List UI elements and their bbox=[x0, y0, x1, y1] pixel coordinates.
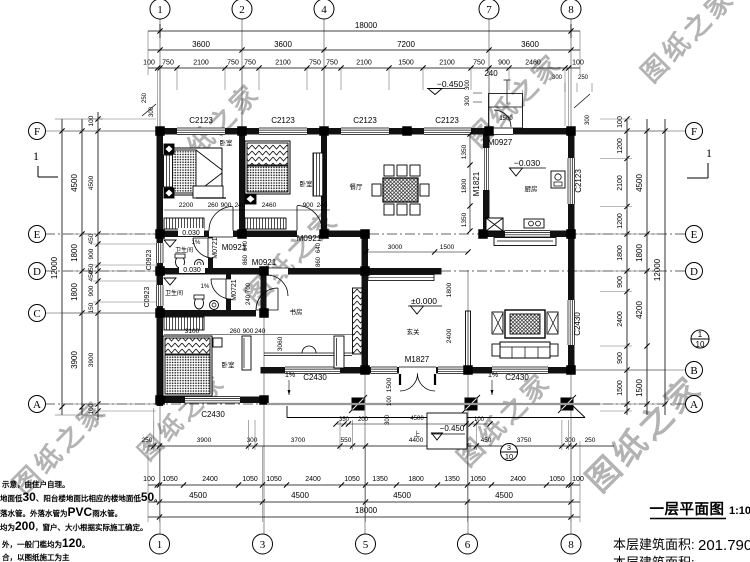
svg-text:卧室: 卧室 bbox=[222, 360, 236, 369]
svg-text:900: 900 bbox=[88, 285, 95, 296]
grid bubble F left bbox=[29, 123, 46, 140]
svg-text:3700: 3700 bbox=[291, 437, 306, 444]
svg-text:1350: 1350 bbox=[444, 476, 460, 483]
svg-text:900: 900 bbox=[617, 276, 624, 288]
door arc study bbox=[267, 275, 288, 296]
column bbox=[237, 229, 247, 239]
svg-text:3900: 3900 bbox=[70, 351, 79, 369]
svg-text:卫生间: 卫生间 bbox=[175, 246, 193, 254]
svg-text:860: 860 bbox=[243, 254, 249, 265]
bottom step block bbox=[427, 413, 467, 449]
svg-text:2100: 2100 bbox=[275, 60, 291, 67]
kitchen south window bbox=[505, 231, 550, 238]
svg-text:C2430: C2430 bbox=[505, 373, 529, 382]
svg-text:2460: 2460 bbox=[262, 202, 277, 209]
grid line 3 bbox=[263, 270, 265, 534]
exterior wall west bbox=[157, 128, 164, 406]
dim line left 12000 bbox=[61, 119, 63, 415]
svg-text:100: 100 bbox=[572, 60, 584, 67]
svg-text:M0721: M0721 bbox=[231, 279, 238, 301]
bottom extension stubs bbox=[153, 420, 155, 450]
porch column 2 bbox=[462, 395, 480, 413]
svg-text:书房: 书房 bbox=[290, 307, 303, 316]
svg-text:1050: 1050 bbox=[266, 476, 282, 483]
svg-text:1500: 1500 bbox=[635, 379, 644, 397]
entry steps north bbox=[489, 94, 523, 129]
column bbox=[566, 229, 576, 239]
kitchen back porch bbox=[494, 238, 556, 246]
window C2123 n1 bbox=[177, 128, 225, 135]
dim line right fine bbox=[626, 119, 628, 415]
door gap M0927 bbox=[492, 128, 513, 135]
svg-text:240: 240 bbox=[317, 202, 328, 209]
door gap M1827 bbox=[399, 367, 436, 374]
grid line 6 bbox=[467, 270, 469, 534]
svg-text:C2430: C2430 bbox=[201, 410, 225, 419]
kitchen wall south bbox=[483, 231, 575, 238]
dim chain fine bottom A bbox=[148, 445, 614, 447]
svg-text:3750: 3750 bbox=[517, 437, 532, 444]
svg-text:6: 6 bbox=[465, 539, 471, 551]
tv unit living bbox=[505, 310, 545, 338]
door gap bedroom2 bbox=[297, 231, 322, 238]
column bbox=[319, 229, 329, 239]
svg-text:B: B bbox=[690, 365, 697, 377]
svg-text:4500: 4500 bbox=[495, 491, 513, 500]
toilet bath2 bbox=[195, 297, 204, 309]
dim chain 18000 top bbox=[148, 30, 580, 32]
svg-text:250: 250 bbox=[142, 92, 148, 103]
svg-text:4: 4 bbox=[321, 4, 327, 16]
left extension stubs bbox=[93, 118, 156, 120]
svg-text:18000: 18000 bbox=[355, 21, 378, 30]
porch south dims bbox=[336, 423, 490, 425]
grid bubble 1 bottom bbox=[150, 534, 170, 554]
column bbox=[155, 308, 165, 318]
svg-text:±0.000: ±0.000 bbox=[411, 296, 437, 306]
svg-text:卫生间: 卫生间 bbox=[165, 289, 183, 297]
grid line 1 bbox=[159, 18, 161, 534]
wall between bedroom1-2 bbox=[239, 135, 245, 231]
svg-text:260: 260 bbox=[208, 202, 219, 209]
svg-text:860: 860 bbox=[316, 256, 322, 267]
svg-text:1:10: 1:10 bbox=[729, 505, 750, 517]
svg-text:1: 1 bbox=[706, 146, 712, 160]
window C0923 w1 bbox=[157, 243, 164, 263]
grid line 2 bbox=[241, 18, 243, 232]
svg-text:2460: 2460 bbox=[525, 60, 541, 67]
svg-text:1800: 1800 bbox=[70, 283, 79, 301]
detail bubble 1/10 right bbox=[691, 330, 709, 348]
left extension lines bbox=[62, 130, 156, 132]
svg-text:M0721: M0721 bbox=[212, 237, 219, 259]
window C2430 living bbox=[492, 367, 548, 374]
grid bubble B right bbox=[686, 362, 703, 379]
svg-text:F: F bbox=[691, 126, 697, 138]
wardrobe bedroom1 bbox=[164, 155, 173, 187]
dim line left outer bbox=[81, 119, 83, 415]
porch floor band bbox=[267, 403, 600, 405]
column bbox=[360, 266, 370, 276]
entry door arc north bbox=[494, 110, 511, 127]
svg-text:640: 640 bbox=[243, 240, 249, 251]
svg-text:C2430: C2430 bbox=[573, 312, 582, 336]
grid bubble E left bbox=[29, 226, 46, 243]
svg-text:1%: 1% bbox=[285, 372, 295, 379]
dining table bbox=[383, 178, 418, 202]
dims bedrooms interior bbox=[164, 209, 330, 211]
bath2 wall east bbox=[226, 275, 231, 311]
grid line 4 bbox=[323, 18, 325, 232]
svg-text:F: F bbox=[34, 126, 40, 138]
svg-text:3: 3 bbox=[260, 539, 266, 551]
porch column 3 bbox=[558, 395, 576, 413]
svg-text:1800: 1800 bbox=[408, 476, 424, 483]
svg-text:100: 100 bbox=[474, 417, 485, 423]
svg-text:3600: 3600 bbox=[192, 40, 210, 49]
svg-text:0.030: 0.030 bbox=[182, 230, 200, 237]
svg-text:1050: 1050 bbox=[344, 476, 360, 483]
nightstand bedroom3 bbox=[213, 338, 222, 347]
toilet bath1 bbox=[176, 256, 185, 268]
grid line C bbox=[45, 312, 160, 314]
exterior wall east kitchen-living bbox=[568, 128, 575, 374]
elevation 0.030 bath2 bbox=[179, 265, 205, 273]
svg-text:1800: 1800 bbox=[446, 282, 453, 297]
svg-text:一层平面图: 一层平面图 bbox=[650, 501, 725, 518]
svg-text:3900: 3900 bbox=[197, 437, 212, 444]
svg-text:示意，由住户自理。: 示意，由住户自理。 bbox=[1, 479, 70, 489]
svg-text:玄关: 玄关 bbox=[407, 327, 421, 336]
svg-text:12000: 12000 bbox=[653, 258, 662, 281]
svg-text:260: 260 bbox=[230, 328, 241, 335]
svg-text:8: 8 bbox=[568, 539, 574, 551]
svg-text:300: 300 bbox=[465, 79, 471, 90]
grid line E bbox=[45, 233, 686, 235]
svg-text:7: 7 bbox=[486, 4, 492, 16]
porch edge diagonal bbox=[573, 406, 585, 418]
svg-text:900: 900 bbox=[498, 60, 510, 67]
svg-text:750: 750 bbox=[309, 60, 321, 67]
svg-text:300: 300 bbox=[465, 95, 471, 106]
svg-text:1350: 1350 bbox=[372, 476, 388, 483]
dim line right 12000 bbox=[664, 119, 666, 415]
grid line B bbox=[470, 369, 686, 371]
dim line left fine bbox=[97, 112, 99, 420]
svg-text:4500: 4500 bbox=[635, 174, 644, 192]
door arc study south bbox=[302, 346, 316, 353]
svg-text:300: 300 bbox=[565, 437, 576, 444]
grid line F bbox=[45, 130, 158, 132]
grid bubble C left bbox=[29, 305, 46, 322]
svg-text:E: E bbox=[34, 229, 41, 241]
column bbox=[360, 365, 370, 375]
svg-text:1800: 1800 bbox=[635, 244, 644, 262]
svg-text:0.030: 0.030 bbox=[183, 267, 201, 274]
kitchen counter appliance bbox=[524, 219, 544, 228]
door gap bath1 bbox=[208, 238, 213, 258]
svg-text:C2123: C2123 bbox=[189, 116, 213, 125]
svg-text:450: 450 bbox=[481, 437, 492, 444]
grid line 8 bbox=[570, 18, 572, 534]
closet bedroom2 bbox=[313, 153, 324, 196]
svg-text:−0.450: −0.450 bbox=[440, 424, 465, 433]
right extension stubs bbox=[600, 118, 632, 120]
svg-text:900: 900 bbox=[303, 202, 314, 209]
interior wall D line baths bbox=[157, 268, 270, 275]
svg-text:合，以图纸施工为主: 合，以图纸施工为主 bbox=[2, 552, 70, 562]
wall between bedroom2-dining bbox=[321, 135, 327, 231]
dim chain fine top bbox=[148, 67, 580, 69]
desk bedroom1 bbox=[193, 186, 223, 198]
tv side table right bbox=[547, 312, 558, 334]
cabinet bedroom1 bbox=[164, 218, 204, 229]
door arc bath1 bbox=[193, 238, 213, 258]
svg-text:1%: 1% bbox=[192, 240, 201, 246]
svg-text:2400: 2400 bbox=[510, 476, 526, 483]
svg-text:240: 240 bbox=[484, 69, 498, 78]
grid bubble 2 top bbox=[232, 0, 252, 19]
svg-text:D: D bbox=[690, 266, 698, 278]
door gap M1821 bbox=[483, 148, 490, 190]
svg-text:100: 100 bbox=[143, 60, 155, 67]
svg-text:300: 300 bbox=[585, 114, 591, 125]
svg-text:12000: 12000 bbox=[50, 256, 59, 279]
svg-text:1800: 1800 bbox=[70, 244, 79, 262]
NW corner drain bbox=[142, 104, 156, 116]
window B wall right of door bbox=[438, 367, 464, 374]
svg-text:100: 100 bbox=[88, 115, 95, 126]
grid bubble A left bbox=[29, 396, 46, 413]
column bbox=[237, 126, 247, 136]
svg-text:100: 100 bbox=[572, 476, 584, 483]
grid bubble 6 bottom bbox=[458, 534, 478, 554]
wall B line bbox=[261, 367, 575, 374]
grid bubble 4 top bbox=[314, 0, 334, 19]
grid bubble D left bbox=[29, 263, 46, 280]
column bbox=[259, 395, 269, 405]
partition living x468 bbox=[466, 311, 471, 367]
window B wall left of door bbox=[371, 367, 397, 374]
svg-text:4200: 4200 bbox=[635, 301, 644, 319]
svg-text:A: A bbox=[690, 399, 698, 411]
window C2430 study bbox=[285, 367, 340, 374]
bed bedroom3 bbox=[163, 336, 212, 396]
svg-text:1050: 1050 bbox=[470, 476, 486, 483]
cabinet bedroom3 bbox=[164, 317, 204, 330]
porch slab outline bbox=[287, 417, 585, 419]
grid bubble D right bbox=[686, 263, 703, 280]
svg-text:1050: 1050 bbox=[162, 476, 178, 483]
grid line D bbox=[45, 270, 686, 272]
svg-text:900: 900 bbox=[243, 328, 254, 335]
svg-text:100: 100 bbox=[88, 403, 95, 414]
svg-text:3: 3 bbox=[507, 443, 511, 452]
svg-text:C: C bbox=[33, 308, 40, 320]
svg-text:700: 700 bbox=[246, 282, 252, 293]
wall x365 study-entry bbox=[362, 237, 369, 367]
exterior wall north bbox=[157, 128, 490, 135]
svg-text:2100: 2100 bbox=[439, 60, 455, 67]
svg-text:2400: 2400 bbox=[202, 476, 218, 483]
column bbox=[402, 126, 412, 136]
svg-text:M0921: M0921 bbox=[252, 258, 277, 267]
svg-text:C0923: C0923 bbox=[146, 250, 153, 271]
svg-text:M1821: M1821 bbox=[472, 171, 481, 196]
door leaf kitchen M1821 bbox=[486, 148, 488, 190]
bed bedroom1 bbox=[170, 148, 222, 195]
svg-text:240: 240 bbox=[235, 202, 246, 209]
door gap bedroom1 bbox=[209, 231, 233, 238]
svg-text:3100: 3100 bbox=[185, 328, 200, 335]
kitchen flue bbox=[486, 218, 503, 231]
svg-text:2100: 2100 bbox=[617, 175, 624, 191]
dim chain 3600 top bbox=[148, 49, 580, 51]
porch column 1 bbox=[349, 395, 367, 413]
svg-text:本层建筑面积:: 本层建筑面积: bbox=[613, 555, 695, 562]
svg-text:4500: 4500 bbox=[291, 491, 309, 500]
svg-text:上: 上 bbox=[414, 429, 421, 438]
svg-text:1: 1 bbox=[698, 330, 703, 339]
svg-text:4500: 4500 bbox=[410, 416, 424, 422]
interior wall D line entry bbox=[362, 268, 442, 275]
study desk bbox=[334, 336, 344, 368]
svg-text:1500: 1500 bbox=[617, 380, 624, 396]
svg-text:2100: 2100 bbox=[356, 60, 372, 67]
svg-text:2400: 2400 bbox=[305, 476, 321, 483]
dim line right mid bbox=[646, 119, 648, 415]
svg-text:1500: 1500 bbox=[386, 377, 393, 392]
svg-text:250: 250 bbox=[578, 75, 589, 81]
svg-text:350: 350 bbox=[339, 417, 350, 423]
svg-text:3600: 3600 bbox=[274, 40, 292, 49]
window C2123 n2 bbox=[259, 128, 307, 135]
svg-text:450: 450 bbox=[88, 270, 95, 281]
svg-text:1500: 1500 bbox=[499, 116, 513, 122]
window C2123 east kitchen bbox=[568, 158, 575, 204]
interior wall C line bedroom3 top bbox=[157, 310, 268, 317]
bath1 wall east bbox=[208, 237, 213, 268]
svg-text:C2123: C2123 bbox=[271, 116, 295, 125]
svg-text:1200: 1200 bbox=[617, 213, 624, 229]
window C2123 n4 bbox=[424, 128, 471, 135]
svg-text:750: 750 bbox=[326, 60, 338, 67]
dim chain fine bottom B bbox=[148, 484, 580, 486]
svg-text:900: 900 bbox=[88, 248, 95, 259]
window C0923 w2 bbox=[157, 285, 164, 306]
cabinet bedroom2 bbox=[245, 218, 286, 229]
grid line 5 bbox=[364, 232, 366, 534]
svg-text:E: E bbox=[691, 229, 698, 241]
svg-text:300: 300 bbox=[149, 106, 155, 117]
tv side table left bbox=[492, 312, 503, 334]
svg-text:4500: 4500 bbox=[189, 491, 207, 500]
door gap bedroom3 bbox=[256, 310, 278, 317]
svg-text:餐厅: 餐厅 bbox=[350, 182, 364, 191]
detail bubble 3/10 bottom bbox=[501, 444, 518, 461]
svg-text:D: D bbox=[33, 266, 41, 278]
corridor wall x264 bbox=[261, 275, 267, 310]
svg-text:240: 240 bbox=[246, 294, 252, 305]
grid bubble E right bbox=[686, 226, 703, 243]
svg-text:M0921: M0921 bbox=[297, 234, 322, 243]
door arc bedroom2 bbox=[297, 206, 322, 231]
svg-text:3600: 3600 bbox=[521, 40, 539, 49]
svg-text:900: 900 bbox=[221, 202, 232, 209]
svg-text:300: 300 bbox=[385, 414, 391, 425]
svg-text:1050: 1050 bbox=[242, 476, 258, 483]
column bbox=[484, 126, 494, 136]
svg-text:750: 750 bbox=[473, 60, 485, 67]
svg-text:250: 250 bbox=[585, 437, 596, 444]
svg-text:C0923: C0923 bbox=[144, 287, 151, 308]
grid line A bbox=[45, 403, 686, 405]
dims bedroom3 interior bbox=[164, 334, 355, 336]
svg-text:10: 10 bbox=[505, 452, 513, 461]
svg-text:2200: 2200 bbox=[179, 202, 194, 209]
column bbox=[478, 229, 488, 239]
column bbox=[319, 126, 329, 136]
svg-text:150: 150 bbox=[88, 302, 95, 313]
svg-text:2100: 2100 bbox=[193, 60, 209, 67]
svg-text:750: 750 bbox=[227, 60, 239, 67]
svg-text:C2123: C2123 bbox=[574, 169, 583, 193]
window C2430 east living bbox=[568, 300, 575, 345]
door gap bath2 bbox=[226, 279, 231, 299]
svg-text:450: 450 bbox=[88, 233, 95, 244]
grid bubble A right bbox=[686, 396, 703, 413]
grid line 7 bbox=[488, 18, 490, 232]
svg-text:C2430: C2430 bbox=[303, 373, 327, 382]
door arc bath2 bbox=[211, 279, 231, 299]
interior wall D line study-hall bbox=[260, 268, 370, 275]
door arc bedroom3 bbox=[256, 288, 278, 310]
svg-text:1: 1 bbox=[33, 149, 39, 163]
svg-text:1: 1 bbox=[157, 539, 163, 551]
svg-text:18000: 18000 bbox=[355, 506, 378, 515]
svg-text:本层建筑面积:: 本层建筑面积: bbox=[613, 537, 695, 552]
dims dining right bbox=[469, 134, 471, 231]
svg-text:卧室: 卧室 bbox=[300, 179, 314, 188]
svg-text:640: 640 bbox=[316, 242, 322, 253]
svg-text:1%: 1% bbox=[488, 372, 498, 379]
sink bath2 bbox=[210, 301, 219, 310]
sofa living bbox=[500, 342, 550, 358]
svg-text:−0.450: −0.450 bbox=[437, 79, 464, 89]
svg-text:550: 550 bbox=[341, 437, 352, 444]
svg-text:300: 300 bbox=[552, 75, 563, 81]
svg-text:100: 100 bbox=[617, 116, 624, 128]
grid bubble 3 bottom bbox=[253, 534, 273, 554]
svg-text:3900: 3900 bbox=[88, 352, 95, 367]
svg-text:5: 5 bbox=[363, 539, 369, 551]
svg-text:2400: 2400 bbox=[617, 311, 624, 327]
svg-text:1500: 1500 bbox=[440, 244, 455, 251]
svg-text:7200: 7200 bbox=[397, 40, 415, 49]
bedroom3 side rect bbox=[242, 336, 251, 370]
door gap study bbox=[267, 268, 288, 275]
elevation 0.030 bath bbox=[178, 228, 204, 236]
svg-text:4500: 4500 bbox=[88, 175, 95, 190]
svg-text:A: A bbox=[33, 399, 41, 411]
svg-text:8: 8 bbox=[568, 4, 574, 16]
dims entry bbox=[366, 251, 468, 253]
bedroom3 wall south bbox=[157, 397, 268, 404]
svg-text:M1827: M1827 bbox=[405, 355, 430, 364]
door M1827 double bbox=[400, 374, 418, 392]
svg-text:M0927: M0927 bbox=[488, 138, 513, 147]
study sill line bbox=[264, 352, 352, 354]
